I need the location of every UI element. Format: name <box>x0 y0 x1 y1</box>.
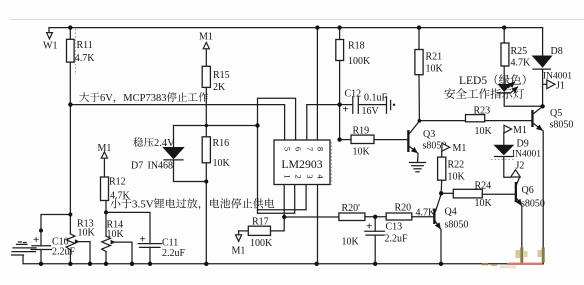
svg-text:M1: M1 <box>513 125 527 136</box>
svg-text:M1: M1 <box>453 143 467 154</box>
svg-text:M1: M1 <box>199 32 213 43</box>
svg-text:LM2903: LM2903 <box>281 157 322 171</box>
svg-text:1: 1 <box>283 174 293 178</box>
svg-text:2K: 2K <box>213 82 226 93</box>
svg-text:Q6: Q6 <box>522 185 534 196</box>
svg-text:5: 5 <box>283 147 293 151</box>
svg-text:10K: 10K <box>107 229 125 240</box>
svg-text:4.7K: 4.7K <box>511 58 532 69</box>
svg-text:s8050: s8050 <box>445 220 469 231</box>
svg-text:2.2uF: 2.2uF <box>162 248 186 259</box>
svg-text:M1: M1 <box>232 246 246 257</box>
svg-text:10K: 10K <box>78 228 96 239</box>
svg-text:10K: 10K <box>213 158 231 169</box>
svg-text:10K: 10K <box>448 172 466 183</box>
svg-text:2: 2 <box>294 174 304 178</box>
svg-text:R23: R23 <box>474 106 491 117</box>
svg-text:4.7K: 4.7K <box>75 53 96 64</box>
svg-text:+: + <box>33 234 39 246</box>
svg-text:R20': R20' <box>342 203 361 214</box>
svg-text:6V: 6V <box>100 93 113 104</box>
svg-text:100K: 100K <box>348 56 371 67</box>
svg-text:2.2uF: 2.2uF <box>52 247 76 258</box>
svg-text:R19: R19 <box>353 126 370 137</box>
svg-text:0.1uF: 0.1uF <box>364 93 388 104</box>
svg-text:C11: C11 <box>162 238 178 249</box>
svg-text:R16: R16 <box>213 138 230 149</box>
svg-text:16V: 16V <box>362 106 380 117</box>
svg-text:MCP7383: MCP7383 <box>123 93 166 104</box>
svg-text:J2: J2 <box>516 161 525 172</box>
svg-text:3: 3 <box>305 174 315 178</box>
svg-text:R15: R15 <box>213 70 230 81</box>
svg-text:10K: 10K <box>426 64 444 75</box>
svg-text:6: 6 <box>294 147 304 151</box>
svg-text:R18: R18 <box>348 41 365 52</box>
svg-text:J1: J1 <box>556 81 565 92</box>
svg-text:Q3: Q3 <box>423 129 435 140</box>
svg-text:D8: D8 <box>551 46 563 57</box>
svg-text:10K: 10K <box>475 126 493 137</box>
svg-text:C13: C13 <box>386 222 403 233</box>
svg-text:+: + <box>343 104 349 116</box>
svg-text:2.2uF: 2.2uF <box>385 234 409 245</box>
svg-text:10K: 10K <box>342 237 360 248</box>
svg-text:R11: R11 <box>77 40 93 51</box>
svg-text:R12: R12 <box>109 177 126 188</box>
svg-text:IN4001: IN4001 <box>512 150 541 160</box>
svg-text:7: 7 <box>305 147 315 151</box>
svg-text:R21: R21 <box>426 52 443 63</box>
svg-text:s8050: s8050 <box>521 199 545 210</box>
svg-text:Q5: Q5 <box>550 108 562 119</box>
svg-text:10K: 10K <box>475 198 493 209</box>
svg-text:8: 8 <box>315 147 325 151</box>
svg-text:R25: R25 <box>511 46 528 57</box>
svg-text:4: 4 <box>315 174 325 179</box>
svg-text:W1: W1 <box>43 41 57 52</box>
svg-text:s8050: s8050 <box>550 120 574 131</box>
svg-text:4.7K: 4.7K <box>110 191 131 202</box>
svg-text:IN468: IN468 <box>148 161 174 172</box>
svg-text:R22: R22 <box>448 160 465 171</box>
svg-text:D9: D9 <box>517 139 529 150</box>
svg-text:D7: D7 <box>131 161 143 172</box>
svg-text:3.5V: 3.5V <box>132 199 154 211</box>
svg-text:2.4V: 2.4V <box>154 138 175 149</box>
svg-text:Q4: Q4 <box>445 207 457 218</box>
svg-text:10K: 10K <box>353 147 371 158</box>
svg-text:100K: 100K <box>250 238 273 249</box>
svg-text:R20: R20 <box>395 203 412 214</box>
svg-text:LED5: LED5 <box>459 75 487 87</box>
svg-text:R17: R17 <box>252 217 269 228</box>
svg-text:R24: R24 <box>475 181 492 192</box>
